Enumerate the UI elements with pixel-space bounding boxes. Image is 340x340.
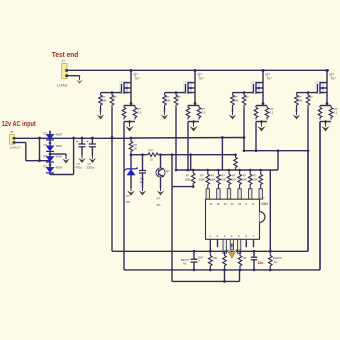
resistor R3a (gate pulldown) — [231, 93, 239, 108]
wire: pin4 drop to cap — [231, 244, 233, 248]
svg-text:+: + — [76, 140, 78, 144]
svg-text:U?: U? — [261, 197, 265, 201]
resistor R1a (gate pulldown) — [99, 93, 107, 108]
svg-text:D?: D? — [44, 154, 48, 158]
wire: top test rail — [68, 69, 330, 71]
svg-text:10K: 10K — [234, 99, 239, 103]
label 12VAC — [10, 146, 21, 150]
ground under shunts 4 — [321, 122, 329, 132]
wire: source split bus 4 — [320, 104, 331, 106]
wire: link drop x278 — [277, 151, 279, 170]
svg-text:100K: 100K — [210, 178, 216, 181]
svg-text:Q?: Q? — [166, 169, 170, 173]
resistor R2d (shunt right) — [197, 106, 206, 120]
net label: Test end — [52, 52, 79, 59]
svg-text:AC: AC — [274, 260, 278, 264]
svg-text:7N?: 7N? — [199, 77, 205, 81]
resistor R22 (to bus3) — [223, 251, 227, 281]
wire: bridge column — [49, 131, 52, 175]
label under Q5 — [157, 197, 162, 208]
diode D4 (1N4007) — [44, 165, 63, 173]
wire: cell4 gate drop to bottom bus1 — [307, 108, 309, 252]
resistor R2c (shunt left) — [186, 106, 190, 120]
svg-text:4%: 4% — [157, 203, 162, 207]
svg-text:0.1: 0.1 — [334, 111, 338, 115]
svg-text:J?: J? — [10, 130, 14, 134]
resistor R23 — [238, 251, 247, 270]
capacitor C2 (electrolytic) — [86, 138, 96, 156]
resistor R1c (shunt left) — [122, 106, 126, 120]
svg-text:R?: R? — [177, 95, 181, 99]
svg-text:100K: 100K — [220, 178, 226, 181]
resistor R4b (gate series) — [306, 93, 313, 108]
transistor Q1 (N-MOSFET) — [120, 71, 140, 104]
wire: regulated rail y154.7 — [131, 153, 236, 156]
wire: cell2 gate drop to resistor-row bus — [175, 108, 178, 172]
wire: shunt merge bus 4 — [320, 120, 331, 123]
svg-text:J?: J? — [62, 59, 66, 63]
svg-text:100K: 100K — [252, 178, 258, 181]
wire: row bottom link to x172 — [172, 155, 195, 188]
capacitor C1 (electrolytic) — [76, 138, 86, 156]
svg-text:D?: D? — [44, 143, 48, 147]
wire: J2 lower pin jog — [15, 143, 50, 163]
svg-text:D?: D? — [44, 165, 48, 169]
resistor R3c (shunt left) — [254, 106, 258, 120]
svg-text:12VAC?: 12VAC? — [10, 146, 21, 150]
wire: cell3 gate drop — [243, 108, 246, 153]
label LOAD — [57, 84, 68, 88]
wire: gate bus cell 1 — [101, 91, 122, 94]
diode ZD1 (zener 12v) — [125, 155, 138, 188]
resistor R11 (100K input) — [185, 170, 196, 187]
wire: source split bus 3 — [256, 104, 267, 106]
transistor Q2 (N-MOSFET) — [184, 71, 204, 104]
svg-text:4007: 4007 — [56, 133, 63, 137]
ground under C1 — [78, 156, 85, 164]
resistor R4d (shunt right) — [329, 106, 338, 120]
svg-text:R?: R? — [113, 95, 117, 99]
ground under shunts 1 — [125, 122, 133, 132]
svg-text:+: + — [86, 140, 88, 144]
wire: shunt merge bus 2 — [188, 120, 199, 123]
node: source junction 3 — [262, 102, 265, 105]
wire: bus1 right riser — [307, 151, 309, 252]
svg-text:100K: 100K — [242, 178, 248, 181]
wire: mid horizontal link y150.7 — [244, 149, 309, 152]
diode D1 (1N4007) — [44, 132, 63, 140]
wire: pin1 drop to bus1 — [209, 247, 211, 251]
wire: cell1 gate drop to bottom bus1 — [111, 108, 114, 252]
resistor R14 (100K input) — [220, 170, 231, 189]
svg-text:10K: 10K — [298, 99, 303, 103]
svg-text:AC: AC — [183, 262, 187, 266]
svg-text:10K: 10K — [102, 99, 107, 103]
svg-text:4007: 4007 — [56, 155, 63, 159]
resistor R24 — [268, 251, 282, 270]
svg-text:A?: A? — [126, 194, 130, 198]
capacitor C4 (104) — [181, 251, 198, 270]
svg-text:10: 10 — [238, 202, 242, 206]
svg-text:13: 13 — [217, 202, 221, 206]
resistor R3b (gate series) — [242, 93, 249, 108]
transistor Q4 (N-MOSFET) — [316, 71, 336, 104]
node: zener top — [130, 153, 133, 156]
resistor R16 (100K input) — [242, 170, 253, 189]
svg-text:11: 11 — [231, 202, 234, 206]
wire: bridge top tap — [49, 131, 51, 138]
ground under shunts 3 — [257, 122, 265, 132]
wire: gate bus cell 2 — [165, 91, 186, 94]
svg-text:0.1: 0.1 — [138, 111, 142, 115]
IC pin numbers bottom — [209, 234, 254, 238]
net label: 12v AC input — [2, 121, 37, 128]
svg-text:A?: A? — [157, 197, 161, 201]
svg-text:7N?: 7N? — [135, 77, 141, 81]
wire: bottom bus3 y281.4 — [172, 270, 240, 283]
label 104 — [198, 255, 204, 263]
wire: source split bus 1 — [124, 104, 135, 106]
ground under R4a — [293, 108, 300, 120]
svg-text:100K?4: 100K?4 — [273, 256, 283, 260]
wire: cell4 shunt drop to bottom bus2 — [319, 122, 321, 270]
svg-text:12v AC input: 12v AC input — [2, 121, 37, 128]
ground under R2a — [161, 108, 168, 120]
IC pin numbers top — [209, 202, 254, 206]
node: source junction 2 — [194, 102, 197, 105]
svg-text:2200u: 2200u — [87, 166, 95, 170]
pin strip for R16 — [249, 189, 252, 199]
svg-text:BZX?3: BZX?3 — [181, 258, 189, 262]
ground under C3 — [139, 188, 146, 196]
node: rail junction 1 — [130, 69, 133, 72]
svg-text:100K: 100K — [231, 178, 237, 181]
resistor R21 — [209, 251, 218, 270]
ground under ZD1 — [127, 188, 135, 196]
wire: gate bus cell 3 — [233, 91, 254, 94]
capacitor C5 (10u red label) — [251, 251, 264, 270]
wire: resistor-row bus y170 — [176, 169, 278, 172]
resistor R2b (gate series) — [174, 93, 181, 108]
svg-text:4007: 4007 — [56, 144, 63, 148]
ground near J1 — [68, 76, 83, 84]
svg-text:R?: R? — [309, 95, 313, 99]
resistor R1d (shunt right) — [133, 106, 142, 120]
svg-text:10u: 10u — [258, 261, 264, 265]
svg-text:1K: 1K — [134, 146, 138, 150]
ground under C2 — [89, 156, 96, 164]
ground under shunts 2 — [189, 122, 197, 132]
node: rail junction 4 — [326, 69, 329, 72]
ground under R1a — [97, 108, 104, 120]
svg-text:12: 12 — [224, 202, 228, 206]
pin strip for R12 — [206, 189, 209, 199]
transistor Q3 (N-MOSFET) — [252, 71, 272, 104]
svg-text:R?: R? — [245, 95, 249, 99]
svg-text:4069: 4069 — [261, 202, 268, 206]
connector J2 (12v AC input) — [10, 130, 16, 144]
resistor R17 (100K input) — [252, 170, 263, 189]
svg-text:?W: ?W — [243, 256, 247, 260]
wire: drop x190.7 — [190, 155, 192, 170]
svg-text:7N?: 7N? — [331, 77, 337, 81]
resistor R3d (shunt right) — [265, 106, 274, 120]
wire: cell1 shunt drop to bottom bus2 — [123, 122, 125, 270]
wire: gate bus cell 4 — [297, 91, 318, 94]
svg-text:0.1: 0.1 — [202, 111, 206, 115]
svg-text:Test end: Test end — [52, 52, 79, 59]
svg-text:0.1: 0.1 — [270, 111, 274, 115]
wire: shunt merge bus 3 — [256, 120, 267, 123]
ground at bridge mid tap — [62, 156, 69, 164]
resistor R15 (100K input) — [231, 170, 242, 189]
label C1 value — [76, 162, 83, 170]
resistor R12 (100K input) — [199, 170, 210, 189]
resistor R1b (gate series) — [110, 93, 117, 108]
label C2 value — [87, 162, 95, 170]
resistor R5 (series dropper) — [129, 138, 137, 155]
svg-text:4007: 4007 — [56, 166, 63, 170]
wire: source split bus 2 — [188, 104, 199, 106]
pin strip for R15 — [238, 189, 241, 199]
svg-text:D?: D? — [44, 132, 48, 136]
svg-text:10K: 10K — [166, 99, 171, 103]
resistor R2a (gate pulldown) — [163, 93, 171, 108]
resistor R7 (hanging mid) — [234, 153, 238, 170]
wire: drop x222.4 to resistor-row bus — [221, 138, 223, 171]
wire: bottom bus1 y251.3 — [112, 250, 308, 253]
diode D3 (1N4007) — [44, 154, 63, 162]
capacitor C3 (10u) — [136, 155, 146, 188]
svg-text:14: 14 — [209, 202, 213, 206]
resistor R4c (shunt left) — [318, 106, 322, 120]
svg-text:100K: 100K — [185, 178, 191, 181]
resistor R13 (100K input) — [210, 170, 221, 189]
polarized cap VT1 (tan arrow) — [227, 248, 242, 259]
wire: cell2 shunt drop to resistor-row bus — [187, 122, 190, 172]
connector J1 (test end) — [62, 59, 68, 79]
pin strip for R17 — [259, 189, 262, 199]
label under ZD1 — [126, 194, 131, 204]
svg-text:4%: 4% — [126, 200, 131, 204]
wire: J2 vertical link x39.5 — [39, 138, 41, 161]
node: source junction 1 — [130, 102, 133, 105]
node: source junction 4 — [326, 102, 329, 105]
pin strip for R13 — [217, 189, 220, 199]
wire: cell3 shunt drop — [255, 122, 258, 153]
wire: x172 drop to bottom bus3 — [171, 187, 173, 282]
wire: shunt merge bus 1 — [124, 120, 135, 123]
node: rail junction 2 — [194, 69, 197, 72]
wire: bottom bus2 y269.9 — [124, 269, 320, 272]
svg-text:LOAD: LOAD — [57, 84, 68, 88]
ground under R3a — [229, 108, 236, 120]
pin strip for R14 — [227, 189, 230, 199]
diode D2 (1N4007) — [44, 143, 63, 151]
wire: bridge mid tap to ground — [50, 154, 66, 156]
transistor Q5 (small signal) — [156, 155, 170, 188]
svg-text:+: + — [136, 167, 138, 171]
wire: bridge bottom return — [50, 138, 74, 175]
svg-text:VT?: VT? — [237, 248, 242, 252]
resistor R4a (gate pulldown) — [295, 93, 303, 108]
svg-text:10K: 10K — [213, 256, 218, 260]
svg-text:104?: 104? — [198, 255, 204, 259]
op-amp U1 (4069 DIP-14 body) — [206, 197, 269, 240]
wire: DC rail y137.5 — [15, 136, 244, 139]
resistor R6 (horizontal) — [146, 148, 160, 161]
wire: bus drop x270.3 — [269, 170, 272, 253]
ground under Q5 — [157, 188, 164, 196]
wire: bus2 right riser — [319, 122, 321, 270]
svg-text:R??: R?? — [149, 148, 155, 152]
wire: IC bottom pin stubs — [210, 239, 253, 253]
svg-text:7N?: 7N? — [267, 77, 273, 81]
node: rail junction 3 — [262, 69, 265, 72]
svg-text:100K: 100K — [199, 178, 205, 181]
svg-text:1K: 1K — [150, 158, 153, 162]
svg-text:470u: 470u — [76, 166, 83, 170]
